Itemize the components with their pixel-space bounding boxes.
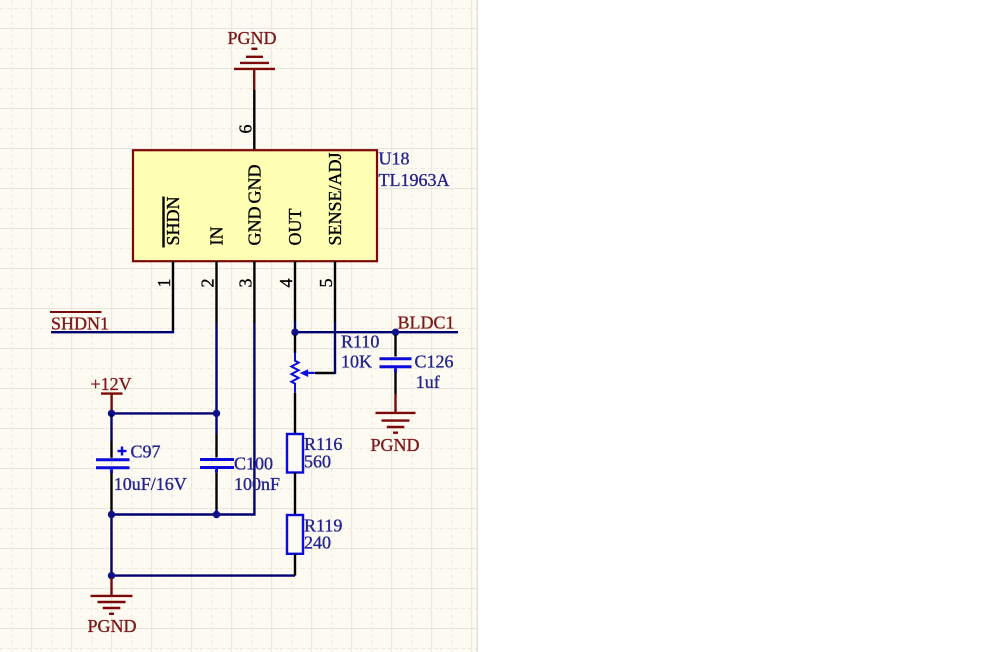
svg-text:6: 6	[235, 125, 255, 134]
svg-text:PGND: PGND	[371, 435, 420, 455]
resistor R116 body	[287, 434, 303, 473]
capacitor C97 pin lower	[110, 473, 112, 510]
ground PGND bottom left label	[88, 616, 137, 636]
potentiometer R110 body zigzag	[291, 353, 298, 393]
designator C126	[415, 352, 454, 372]
junction at OUT pin / BLDC1 wire	[291, 329, 298, 336]
net label BLDC1	[398, 312, 455, 332]
capacitor C100 pin upper	[215, 434, 217, 458]
svg-text:1uf: 1uf	[416, 372, 440, 392]
svg-text:GND: GND	[244, 207, 264, 246]
wire: pin 6 to PGND	[253, 90, 255, 150]
svg-text:PGND: PGND	[88, 616, 137, 636]
wire: C97 top lead	[110, 413, 112, 441]
capacitor C97 polarity plus	[118, 447, 127, 456]
wire: R116 to R119	[294, 473, 296, 516]
pin label IN	[207, 227, 227, 246]
svg-text:C100: C100	[234, 453, 273, 473]
svg-text:SHDN: SHDN	[163, 196, 183, 245]
ground PGND under C126 label	[371, 435, 420, 455]
potentiometer R110 wiper arrow	[300, 369, 315, 377]
svg-text:TL1963A: TL1963A	[379, 170, 450, 190]
svg-text:R110: R110	[341, 331, 379, 351]
svg-text:BLDC1: BLDC1	[398, 312, 455, 332]
designator C97	[131, 442, 161, 462]
resistor R119 lower pin	[294, 554, 296, 576]
pin number 5	[316, 279, 336, 288]
pin number 4	[276, 279, 296, 288]
wire: pin 3 (GND) down to ground rail	[112, 323, 255, 515]
net label SHDN1	[51, 314, 109, 334]
resistor R119 body	[287, 515, 303, 554]
svg-text:560: 560	[304, 452, 331, 472]
power port PGND top: ground symbol	[234, 49, 275, 90]
power port PGND top: label text	[228, 28, 277, 48]
ground PGND bottom left	[91, 578, 133, 614]
svg-text:3: 3	[236, 279, 256, 288]
junction at +12V rail / pin 2	[213, 410, 220, 417]
svg-text:10uF/16V: 10uF/16V	[114, 474, 187, 494]
capacitor C97 plates	[96, 460, 130, 473]
wire: SENSE/ADJ to wiper	[334, 322, 336, 374]
svg-text:1: 1	[154, 279, 174, 288]
wire: bottom rail to R119	[112, 574, 296, 576]
pin number 2	[198, 279, 218, 288]
capacitor C126 plates	[380, 359, 412, 373]
ground PGND under C126	[376, 394, 416, 433]
designator U18	[379, 149, 410, 169]
pin 3	[253, 261, 255, 323]
potentiometer R110 lower pin	[294, 393, 296, 434]
svg-text:OUT: OUT	[285, 209, 305, 246]
svg-text:+12V: +12V	[91, 374, 132, 394]
designator R110	[341, 331, 379, 351]
svg-text:2: 2	[198, 279, 218, 288]
pin number 3	[236, 279, 256, 288]
pin label SENSE/ADJ	[325, 152, 345, 245]
value 1uf	[416, 372, 440, 392]
wire: pin 2 (IN) down to +12V rail	[215, 323, 217, 434]
svg-text:IN: IN	[207, 227, 227, 246]
pin label GND (pin 6)	[244, 165, 264, 204]
capacitor C126 pin upper	[394, 335, 396, 357]
pin label SHDN	[163, 196, 183, 245]
junction at ground rail / C97	[108, 511, 115, 518]
designator R116	[304, 434, 342, 454]
power port +12V label	[91, 374, 132, 394]
value 10uF/16V	[114, 474, 187, 494]
power port +12V bar symbol	[101, 394, 123, 412]
wire: C97 lower to ground rail	[110, 510, 112, 576]
pin label SHDN overline	[162, 197, 164, 248]
value TL1963A	[379, 170, 450, 190]
designator R119	[304, 516, 342, 536]
svg-text:10K: 10K	[341, 352, 372, 372]
svg-text:240: 240	[304, 533, 331, 553]
sheet background	[0, 0, 478, 652]
capacitor C126 pin lower	[394, 373, 396, 395]
svg-text:C97: C97	[131, 442, 161, 462]
svg-text:SHDN1: SHDN1	[51, 314, 109, 334]
pin label GND (pin 3)	[244, 207, 264, 246]
wire: C100 lower to ground rail	[215, 509, 217, 515]
junction at BLDC1 / C126	[392, 329, 399, 336]
pin number 6	[235, 125, 255, 134]
wire: +12V rail horizontal	[112, 412, 217, 414]
potentiometer R110 upper pin	[294, 335, 296, 353]
svg-text:100nF: 100nF	[234, 474, 280, 494]
wire: SHDN1 to pin 1	[51, 330, 173, 332]
svg-text:C126: C126	[415, 352, 454, 372]
junction at +12V / C97	[108, 410, 115, 417]
op-amp U18 body (IC box TL1963A)	[133, 150, 377, 261]
value 100nF	[234, 474, 280, 494]
potentiometer R110 wiper pin	[315, 372, 335, 374]
svg-text:SENSE/ADJ: SENSE/ADJ	[325, 152, 345, 245]
pin 5	[334, 261, 336, 322]
capacitor C100 pin lower	[215, 473, 217, 509]
svg-text:GND: GND	[244, 165, 264, 204]
designator C100	[234, 453, 273, 473]
capacitor C97 pin upper	[110, 441, 112, 458]
pin number 1	[154, 279, 174, 288]
svg-text:4: 4	[276, 279, 296, 288]
pin 4	[294, 261, 296, 332]
pin 1	[172, 261, 174, 330]
value 10K	[341, 352, 372, 372]
capacitor C100 plates	[200, 460, 234, 473]
junction at bottom rail / PGND	[108, 572, 115, 579]
value 560	[304, 452, 331, 472]
junction at ground rail / C100	[213, 511, 220, 518]
pin label OUT	[285, 209, 305, 246]
wire: OUT net BLDC1	[295, 331, 458, 333]
svg-text:PGND: PGND	[228, 28, 277, 48]
svg-text:5: 5	[316, 279, 336, 288]
value 240	[304, 533, 331, 553]
pin 2	[215, 261, 217, 323]
svg-text:U18: U18	[379, 149, 410, 169]
net label SHDN1 overline	[50, 311, 102, 313]
